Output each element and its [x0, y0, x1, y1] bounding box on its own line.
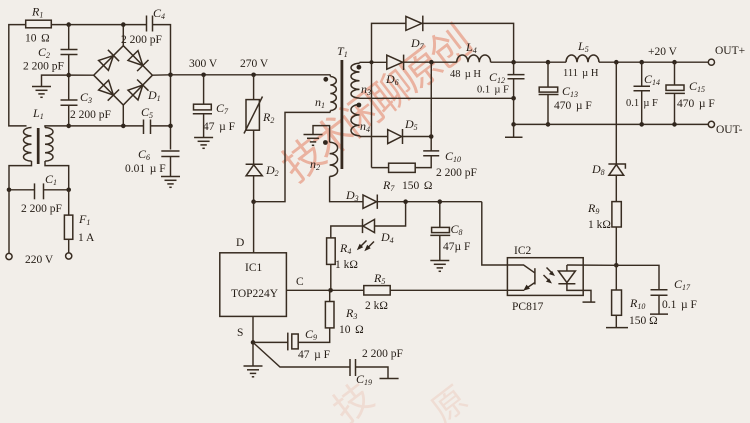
capacitor C13 electrolytic [547, 62, 549, 87]
wire R4 top to D4 [331, 226, 363, 238]
node C13 top [546, 60, 551, 65]
wire bridge bottom stem [122, 105, 124, 126]
wire D8 to R9 [615, 175, 617, 201]
svg-text:S: S [237, 327, 243, 339]
node C2 bottom junction [66, 73, 71, 78]
svg-text:TOP224Y: TOP224Y [231, 288, 279, 300]
wire R1 to top AC rail [51, 24, 146, 26]
resistor R7 [372, 167, 389, 169]
inductor L5 [548, 61, 566, 63]
node C14 top [639, 60, 644, 65]
ground below S [252, 342, 254, 365]
wire LED cathode to gnd stub [567, 284, 591, 302]
wire D7 to L4 node [423, 23, 514, 62]
node R2 branch [251, 73, 256, 78]
optocoupler IC2 box [507, 258, 583, 296]
svg-text:111 µ H: 111 µ H [563, 68, 599, 79]
node C7 [201, 73, 206, 78]
svg-text:470 µ F: 470 µ F [677, 98, 715, 110]
wire C7 to ground [203, 114, 205, 137]
node out- rail left [511, 122, 516, 127]
svg-text:220 V: 220 V [25, 254, 54, 266]
svg-text:OUT+: OUT+ [715, 45, 745, 57]
node clamp junction [251, 199, 256, 204]
plate bar below out- [505, 136, 523, 138]
wire D2 to clamp node [253, 176, 255, 202]
svg-text:48 µ H: 48 µ H [450, 69, 481, 80]
wire bottom AC line [69, 125, 143, 127]
svg-text:300 V: 300 V [189, 58, 218, 70]
winding n3 [351, 63, 360, 98]
wire C6 to ground [170, 157, 172, 177]
wire C1 line [9, 189, 35, 191]
wire OUT- rail [514, 123, 709, 125]
wire LED anode from node [567, 264, 616, 266]
svg-text:47µ F: 47µ F [443, 241, 470, 253]
wire n4 bottom tap [359, 135, 361, 136]
ground below C2 [32, 87, 51, 98]
node C1 right [66, 188, 71, 193]
ground below C8 [430, 261, 449, 272]
wire D7 top rail [372, 23, 406, 62]
wire to 220V left terminal [8, 190, 10, 253]
capacitor C19 [349, 359, 351, 376]
wire S pin [252, 316, 254, 342]
opto LED light arrows [544, 268, 556, 284]
wire 300V rail [171, 74, 331, 76]
capacitor C2 [61, 49, 78, 51]
svg-text:270 V: 270 V [240, 58, 269, 70]
svg-text:2 200 pF: 2 200 pF [21, 203, 62, 215]
wire to ground branch [42, 75, 69, 86]
wire rectifier join vertical [430, 62, 432, 136]
node D8 branch top [614, 60, 619, 65]
terminal OUT+ [708, 59, 714, 65]
node S [251, 340, 256, 345]
wire R7 to C10 [415, 156, 431, 168]
svg-text:1 A: 1 A [78, 232, 95, 244]
terminal OUT- [708, 121, 714, 127]
end bar C19 [380, 378, 399, 380]
junction snubber top [370, 60, 374, 64]
svg-text:2 200 pF: 2 200 pF [362, 348, 403, 360]
wire L1 bottoms [9, 161, 32, 190]
wire stub to plate bar [513, 124, 515, 137]
diode D7 [406, 16, 422, 30]
wire node to R10 [615, 265, 617, 290]
n1 polarity dot [323, 77, 328, 82]
node mid rail [511, 96, 516, 101]
wire R10 to bar [615, 315, 617, 327]
wire n2 bottom to D3 [330, 176, 363, 201]
wire n3 top tap [359, 62, 361, 63]
wire L4 to node [491, 61, 548, 63]
wire n2 top elbow [313, 126, 330, 143]
end bar C17 [650, 313, 668, 315]
svg-text:0.01 µ F: 0.01 µ F [125, 163, 166, 175]
svg-text:150 Ω: 150 Ω [629, 315, 658, 327]
terminal 220V left [6, 253, 12, 259]
capacitor C6 [161, 150, 179, 152]
fuse F1 [68, 190, 70, 215]
wire R9 to node [615, 227, 617, 265]
capacitor C8 electrolytic [439, 202, 441, 228]
wire R3 to C node [329, 290, 331, 301]
capacitor C7 electrolytic [203, 75, 205, 104]
node feedback [614, 263, 619, 268]
capacitor C5 [143, 120, 145, 135]
svg-text:2 200 pF: 2 200 pF [436, 167, 477, 179]
wire L1 right top [45, 126, 69, 128]
svg-text:10 Ω: 10 Ω [25, 33, 50, 45]
wire bridge top stem [122, 25, 124, 46]
svg-text:470 µ F: 470 µ F [554, 100, 592, 112]
bridge diode top-left [99, 56, 114, 71]
wire bias to opto pin [482, 202, 508, 265]
wire C10 to D5 node [430, 137, 432, 151]
opto transistor emitter with arrow [526, 283, 535, 289]
ground below C6 [161, 177, 180, 188]
wire C12 to mid rail [513, 79, 515, 99]
capacitor C17 [651, 289, 668, 291]
bridge rectifier D1 diamond [94, 46, 153, 105]
node right corner vertical [168, 73, 173, 78]
wire C17 to bar [658, 295, 660, 314]
node bridge top rail [121, 22, 126, 27]
wire C3 to L1 line [68, 105, 70, 126]
n2 polarity dot [323, 140, 328, 145]
svg-text:0.1 µ F: 0.1 µ F [662, 299, 697, 311]
varistor R2 [246, 100, 259, 131]
capacitor C10 [423, 150, 439, 152]
wire bridge right vertex to 300V rail [152, 74, 170, 76]
svg-text:PC817: PC817 [512, 301, 544, 313]
n4 polarity dot [357, 103, 362, 108]
wire S diagonal to C19 [253, 342, 350, 367]
svg-text:IC2: IC2 [514, 245, 532, 257]
capacitor C4 [146, 16, 148, 32]
node R1 right [66, 22, 71, 27]
wire drain D pin [253, 202, 255, 253]
wire C2 vertical [68, 25, 70, 50]
end bar R10 [606, 327, 628, 329]
node C8 top [438, 199, 443, 204]
winding n1 [330, 77, 336, 111]
wire R2 to D2 [253, 130, 255, 164]
capacitor C1 [34, 183, 36, 199]
svg-text:10 Ω: 10 Ω [339, 324, 364, 336]
svg-text:C: C [296, 276, 304, 288]
opto transistor bar [534, 268, 536, 284]
end bar LED cathode [583, 301, 596, 303]
wire C19 to end bar [356, 367, 389, 379]
wire C14 to out- [641, 91, 643, 125]
winding n4 [351, 105, 360, 136]
svg-text:2 200 pF: 2 200 pF [121, 34, 162, 46]
resistor R3 [325, 302, 334, 328]
wire R5 to opto [390, 289, 507, 291]
diode D6 [387, 55, 403, 69]
wire mid tap rail [360, 97, 516, 99]
terminal 220V right [66, 253, 72, 259]
capacitor C3 [61, 99, 78, 101]
node C15 bottom [672, 122, 677, 127]
svg-text:2 200 pF: 2 200 pF [23, 61, 64, 73]
wire +20V rail [599, 61, 708, 63]
T1 core [340, 60, 343, 169]
wire F1 to terminal [68, 239, 70, 252]
resistor R5 [364, 286, 390, 295]
wire snubber vertical [371, 62, 373, 167]
wire R4 to C node [330, 264, 332, 290]
svg-text:0.1 µ F: 0.1 µ F [477, 85, 509, 96]
wire D8 branch vertical [615, 62, 617, 163]
bridge diode bottom-right [128, 85, 143, 100]
wire C5 to right corner [151, 125, 171, 127]
n2 ground symbol [304, 135, 323, 146]
svg-text:47 µ F: 47 µ F [298, 349, 330, 361]
node D6 cathode [429, 60, 434, 65]
node C13 bottom [546, 122, 551, 127]
capacitor C15 electrolytic [674, 62, 676, 85]
wire C4 to right corner [153, 25, 171, 150]
svg-text:D: D [236, 237, 244, 249]
wire D6 to L4 [404, 61, 457, 63]
bridge diode top-right [128, 51, 143, 66]
wire C pin [286, 289, 363, 291]
resistor R10 [612, 290, 622, 315]
node bridge bottom on line [121, 124, 126, 129]
node C pin junction [328, 288, 333, 293]
svg-text:2 kΩ: 2 kΩ [365, 300, 388, 312]
node C1 left [7, 188, 12, 193]
wire C15 to out- [674, 93, 676, 124]
zener diode D2 [246, 163, 263, 165]
capacitor C9 [253, 341, 288, 343]
resistor R4 [327, 238, 336, 265]
node D3/D4 [403, 199, 408, 204]
wire D4 to node [375, 202, 406, 226]
L1 core [37, 128, 40, 164]
zener diode D8 [608, 164, 625, 169]
node D5 cathode [429, 134, 434, 139]
diode D3 [363, 195, 377, 208]
wire clamp to n1 bottom [254, 112, 331, 201]
svg-text:2 200 pF: 2 200 pF [70, 109, 111, 121]
wire bridge left vertex [69, 74, 94, 76]
svg-text:1 kΩ: 1 kΩ [335, 259, 358, 271]
resistor R1 [26, 20, 52, 28]
n3 polarity dot [357, 65, 362, 70]
winding n2 [330, 142, 338, 176]
wire mid to out- rail [513, 98, 515, 124]
resistor R9 [612, 202, 621, 227]
bridge diode bottom-left [99, 80, 114, 95]
opto transistor collector [507, 265, 534, 273]
inductor L4 [457, 55, 491, 62]
svg-text:47 µ F: 47 µ F [203, 121, 235, 133]
node L1 top right [66, 124, 71, 129]
capacitor C12 [513, 62, 515, 74]
svg-text:IC1: IC1 [245, 262, 263, 274]
wire C8 to ground [439, 235, 441, 260]
capacitor C14 [641, 62, 643, 86]
D4 LED arrows [357, 241, 374, 252]
wire C9 to R3 [298, 328, 330, 343]
wire node to C17 [616, 265, 659, 290]
node C15 top [672, 60, 677, 65]
diode D5 [388, 130, 402, 144]
wire D3 output line [377, 201, 482, 203]
svg-text:+20 V: +20 V [648, 46, 678, 58]
ground below C7 [194, 138, 213, 149]
opto LED diode [566, 265, 568, 271]
svg-text:OUT-: OUT- [716, 124, 743, 136]
wire C13 to out- rail [547, 95, 549, 125]
node C14 bottom [639, 122, 644, 127]
svg-text:1 kΩ: 1 kΩ [588, 219, 611, 231]
svg-text:150 Ω: 150 Ω [402, 180, 432, 192]
node C6 top [168, 124, 173, 129]
IC1 TOP224Y [220, 253, 287, 317]
node L4 out [511, 60, 516, 65]
diode D4 [363, 219, 375, 232]
wire left input rail top [9, 25, 27, 126]
wire D5 to node [403, 136, 432, 138]
wire to R2 [253, 75, 255, 100]
